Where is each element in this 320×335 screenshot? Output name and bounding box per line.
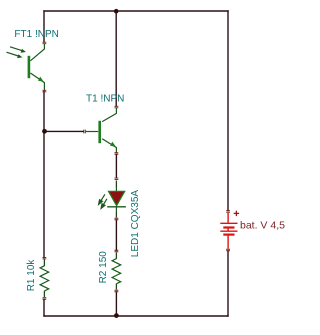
svg-text:bat. V 4,5: bat. V 4,5 (240, 220, 285, 232)
svg-text:R1 10k: R1 10k (26, 259, 37, 292)
svg-text:T1 !NPN: T1 !NPN (86, 93, 124, 104)
svg-text:FT1 !NPN: FT1 !NPN (14, 29, 58, 40)
svg-text:LED1 CQX35A: LED1 CQX35A (130, 190, 141, 258)
svg-text:R2 150: R2 150 (98, 251, 109, 284)
